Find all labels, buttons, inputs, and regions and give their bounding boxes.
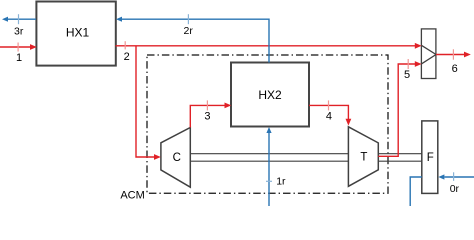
wire red stream 4: HX2 to T [309, 105, 348, 119]
wire red stream 6: mixer out [436, 54, 465, 56]
compressor C [161, 128, 190, 188]
tick stream 3r [18, 14, 20, 24]
wire blue stream 3r out of HX1 [8, 18, 36, 20]
svg-text:2: 2 [124, 51, 130, 63]
heat exchanger HX2 [231, 63, 309, 127]
wire red branch down to compressor [136, 46, 155, 157]
svg-text:6: 6 [452, 63, 458, 75]
wire blue stream 1r into HX2 [268, 132, 270, 206]
svg-text:3: 3 [204, 111, 210, 123]
mixer triangle [421, 45, 436, 64]
svg-text:T: T [360, 152, 367, 164]
ACM dashed boundary box [147, 55, 388, 193]
svg-text:F: F [427, 152, 434, 164]
heat exchanger HX1 [36, 2, 115, 66]
mixer box [421, 29, 436, 79]
tick stream 6 [452, 49, 454, 59]
svg-text:3r: 3r [14, 26, 24, 38]
svg-text:4: 4 [326, 110, 332, 122]
svg-text:5: 5 [404, 69, 410, 81]
tick stream 2 [124, 41, 126, 49]
svg-text:1r: 1r [276, 176, 286, 188]
turbine T [348, 127, 378, 187]
tick stream 5 [407, 59, 409, 69]
svg-text:ACM: ACM [120, 189, 144, 201]
svg-text:HX1: HX1 [66, 26, 90, 40]
svg-text:HX2: HX2 [258, 88, 282, 102]
tick stream 1r [266, 180, 272, 182]
shaft T-F [378, 154, 422, 162]
wire blue stream 2r: HX2 to HX1 [122, 19, 269, 62]
tick stream 4 [328, 100, 330, 110]
svg-text:C: C [173, 152, 181, 164]
tick stream 1 [17, 43, 19, 52]
fan F [422, 121, 438, 193]
svg-text:1: 1 [16, 52, 22, 64]
wire blue stream 0r into F [445, 176, 474, 178]
wire red stream 3: C to HX2 [190, 105, 225, 127]
tick stream 3 [206, 100, 208, 110]
wire red stream 5: T to mixer [378, 64, 415, 156]
tick stream 0r [453, 172, 455, 181]
wire blue F outlet down [410, 177, 422, 206]
wire red stream 1 into HX1 [0, 46, 31, 48]
tick stream 2r [187, 14, 189, 24]
shaft C-T [190, 154, 348, 162]
wire red stream 2: HX1 to mixer [116, 45, 416, 47]
svg-text:0r: 0r [450, 183, 460, 195]
svg-text:2r: 2r [184, 25, 194, 37]
